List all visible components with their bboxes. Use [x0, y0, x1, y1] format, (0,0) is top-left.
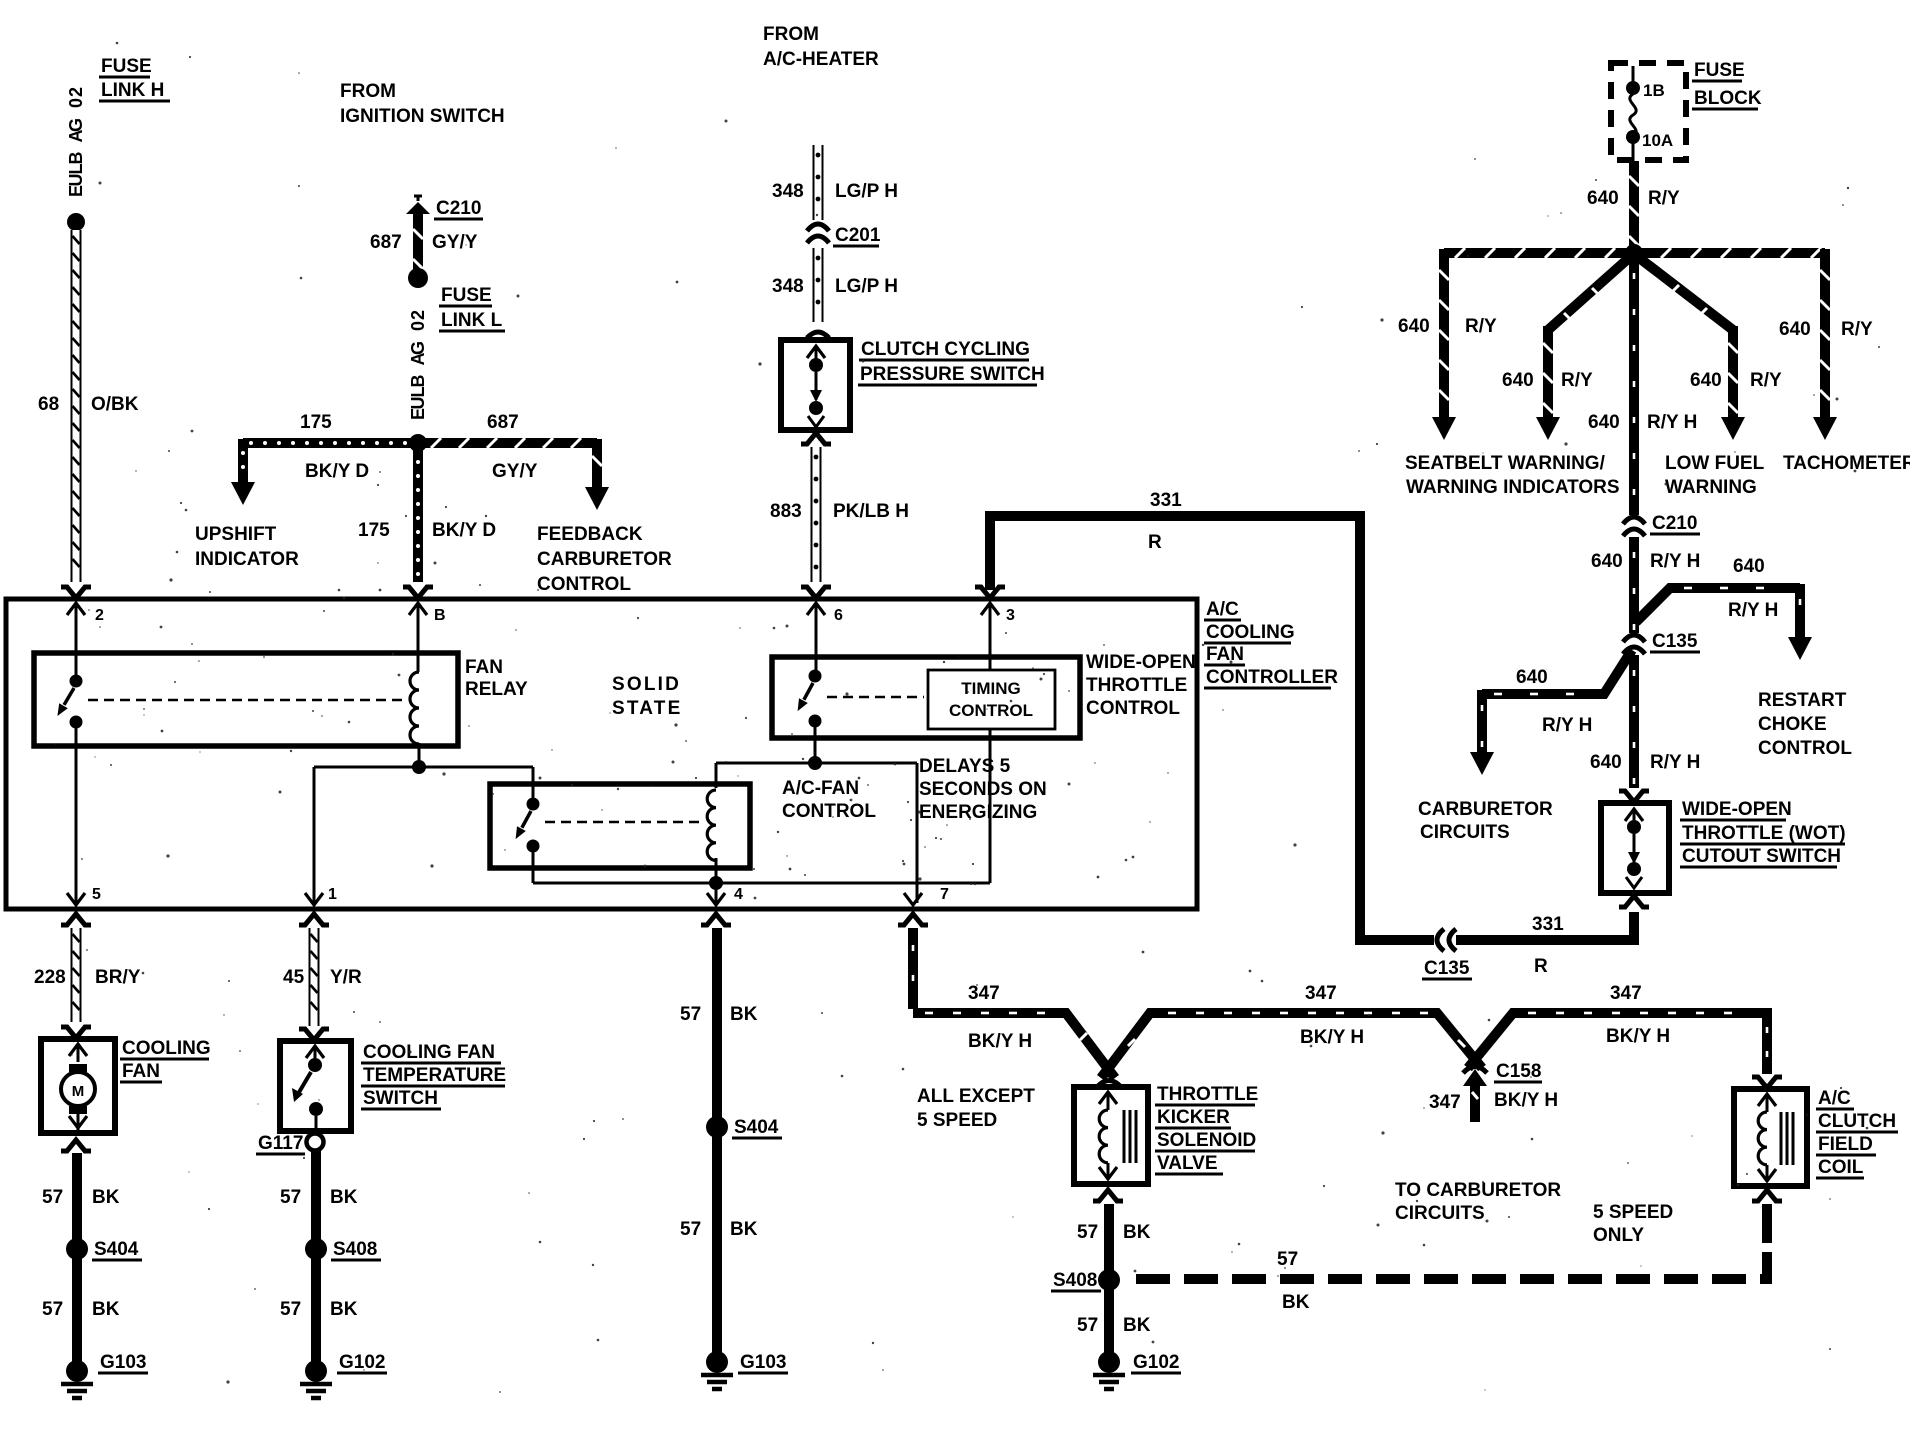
- svg-text:FUSE: FUSE: [441, 285, 492, 306]
- svg-text:347: 347: [968, 983, 1000, 1004]
- connector fork below pin 1: [299, 914, 329, 925]
- svg-text:45: 45: [283, 967, 305, 988]
- svg-text:57: 57: [1077, 1222, 1098, 1243]
- svg-text:BK: BK: [330, 1299, 358, 1320]
- svg-text:G102: G102: [1133, 1352, 1179, 1373]
- svg-text:THROTTLE: THROTTLE: [1157, 1084, 1258, 1105]
- svg-text:CONTROL: CONTROL: [1086, 698, 1180, 719]
- arrow to upshift indicator: [231, 482, 255, 505]
- splice S404: [66, 1238, 88, 1260]
- svg-text:CONTROLLER: CONTROLLER: [1206, 667, 1338, 688]
- svg-text:M: M: [72, 1083, 85, 1100]
- WOT control switch contacts: [809, 670, 822, 683]
- svg-text:R: R: [1148, 532, 1162, 553]
- connector fork at controller pin B: [403, 587, 433, 598]
- svg-text:CUTOUT SWITCH: CUTOUT SWITCH: [1682, 846, 1841, 867]
- wire junction to pin 1 and to A/C-fan switch: [314, 766, 533, 769]
- wire 640 R/Y H branch to carburetor circuits: [1482, 650, 1632, 694]
- svg-text:GY/Y: GY/Y: [492, 461, 538, 482]
- svg-text:FAN: FAN: [122, 1061, 160, 1082]
- svg-text:INDICATOR: INDICATOR: [195, 549, 299, 570]
- ground G102: [305, 1360, 327, 1382]
- wire 331 R from pin 3 to WOT cutout switch: [990, 516, 1434, 940]
- connector fork below cooling fan: [61, 1140, 91, 1151]
- svg-text:640: 640: [1590, 752, 1622, 773]
- svg-text:640: 640: [1398, 316, 1430, 337]
- svg-text:BK: BK: [330, 1187, 358, 1208]
- pin 2 arrow: [67, 603, 85, 615]
- pin 4 arrow: [707, 893, 725, 905]
- svg-text:A/C: A/C: [1818, 1088, 1851, 1109]
- svg-text:BK: BK: [730, 1004, 758, 1025]
- svg-text:KICKER: KICKER: [1157, 1107, 1230, 1128]
- wire 228 BR/Y from pin 5 to cooling fan: [71, 928, 82, 1022]
- svg-text:BK/Y H: BK/Y H: [1300, 1027, 1364, 1048]
- svg-text:BR/Y: BR/Y: [95, 967, 141, 988]
- wire 687 GY/Y from C210 to fuse link L dot: [413, 212, 423, 270]
- svg-text:LINK L: LINK L: [441, 310, 503, 331]
- ground G102 (throttle kicker branch): [1098, 1351, 1120, 1373]
- splice S408: [305, 1238, 327, 1260]
- wire A/C-fan coil to junction: [715, 858, 718, 883]
- wire 175 BK/Y D horizontal to upshift indicator: [243, 438, 418, 448]
- pin B arrow: [409, 603, 427, 615]
- svg-text:IGNITION SWITCH: IGNITION SWITCH: [340, 106, 505, 127]
- cooling fan motor M1 box: [41, 1039, 115, 1133]
- svg-text:347: 347: [1610, 983, 1642, 1004]
- svg-text:640: 640: [1588, 412, 1620, 433]
- svg-text:348: 348: [772, 276, 804, 297]
- svg-text:LOW FUEL: LOW FUEL: [1665, 453, 1765, 474]
- svg-text:57: 57: [680, 1219, 701, 1240]
- svg-text:CONTROL: CONTROL: [1758, 738, 1852, 759]
- svg-text:COOLING: COOLING: [1206, 622, 1295, 643]
- clutch cycling pressure switch SW1: [781, 340, 850, 430]
- svg-text:347: 347: [1305, 983, 1337, 1004]
- svg-text:CIRCUITS: CIRCUITS: [1395, 1203, 1485, 1224]
- wire 640 R/Y H branch to restart choke control: [1636, 588, 1800, 622]
- wire WOT switch to junction dot: [814, 727, 817, 763]
- wire 347 BK/Y H right segment to A/C clutch: [1468, 1013, 1767, 1074]
- wire 640 R/Y H from C135 to WOT cutout switch: [1629, 655, 1639, 788]
- pin 5 arrow: [67, 893, 85, 905]
- svg-text:CLUTCH CYCLING: CLUTCH CYCLING: [861, 339, 1030, 360]
- svg-text:68: 68: [38, 394, 59, 415]
- svg-text:L: L: [408, 387, 428, 398]
- wire pin 6 to WOT control switch: [815, 603, 818, 672]
- svg-text:0: 0: [408, 321, 428, 331]
- wire 348 LG/P H from C201 to clutch cycling pressure switch: [813, 248, 824, 322]
- ground G103 (pin 4 branch): [706, 1351, 728, 1373]
- wire 57 BK temperature switch to ground G102: [311, 1151, 321, 1366]
- svg-text:C210: C210: [1652, 513, 1697, 534]
- wire 640 R/Y diagonal branch to warning indicators: [1548, 257, 1630, 330]
- node dot fuse link L: [408, 268, 428, 288]
- svg-text:C201: C201: [835, 225, 881, 246]
- cooling fan temperature switch SW3 box: [280, 1041, 351, 1131]
- wire 57 BK pin 4 to ground G103: [712, 928, 722, 1358]
- svg-text:CARBURETOR: CARBURETOR: [1418, 799, 1553, 820]
- node dot fuse link H: [67, 213, 85, 231]
- svg-text:BK: BK: [1123, 1315, 1151, 1336]
- svg-text:A/C: A/C: [1206, 599, 1239, 620]
- svg-text:S408: S408: [1053, 1270, 1097, 1291]
- svg-text:E: E: [408, 408, 428, 420]
- connector fork above WOT cutout switch: [1619, 791, 1649, 802]
- connector arc at pressure switch top: [807, 332, 829, 338]
- svg-text:175: 175: [358, 520, 390, 541]
- svg-text:57: 57: [280, 1299, 301, 1320]
- svg-text:BK/Y H: BK/Y H: [968, 1031, 1032, 1052]
- svg-text:7: 7: [940, 886, 949, 903]
- svg-text:FIELD: FIELD: [1818, 1134, 1873, 1155]
- svg-text:U: U: [66, 174, 86, 187]
- svg-text:2: 2: [408, 310, 428, 320]
- svg-text:O/BK: O/BK: [91, 394, 139, 415]
- wire 883 PK/LB H from switch to controller pin 6: [811, 447, 822, 582]
- fan relay dashed link: [88, 699, 408, 702]
- svg-text:SOLENOID: SOLENOID: [1157, 1130, 1256, 1151]
- svg-text:L: L: [66, 164, 86, 175]
- inline connector C135 on 331 wire: [1437, 929, 1444, 951]
- ground terminal G117: [307, 1134, 324, 1151]
- svg-text:CARBURETOR: CARBURETOR: [537, 549, 672, 570]
- wire bus to timing control bottom: [716, 882, 990, 885]
- wide-open throttle cutout switch SW2: [1601, 803, 1669, 893]
- svg-text:A/C-HEATER: A/C-HEATER: [763, 49, 879, 70]
- connector fork above A/C clutch field coil: [1752, 1077, 1782, 1088]
- junction dot 175/687 split: [409, 434, 427, 452]
- svg-text:U: U: [408, 397, 428, 410]
- svg-text:ENERGIZING: ENERGIZING: [919, 802, 1037, 823]
- svg-text:C158: C158: [1496, 1061, 1541, 1082]
- svg-text:3: 3: [1006, 607, 1015, 624]
- svg-text:C135: C135: [1424, 958, 1470, 979]
- svg-text:0: 0: [66, 98, 86, 108]
- svg-text:FUSE: FUSE: [1694, 60, 1745, 81]
- svg-text:GY/Y: GY/Y: [432, 232, 478, 253]
- wire 640 R/Y H main down to C210: [1629, 258, 1639, 515]
- svg-text:R/Y H: R/Y H: [1650, 551, 1700, 572]
- svg-text:640: 640: [1733, 556, 1765, 577]
- svg-text:FROM: FROM: [763, 24, 819, 45]
- svg-text:LG/P H: LG/P H: [835, 276, 898, 297]
- svg-text:R/Y: R/Y: [1750, 370, 1782, 391]
- connector C210 arrow to ignition switch: [417, 196, 420, 201]
- svg-text:640: 640: [1502, 370, 1534, 391]
- svg-text:G117: G117: [258, 1133, 303, 1154]
- svg-text:SECONDS ON: SECONDS ON: [919, 779, 1047, 800]
- pin 1 arrow: [305, 893, 323, 905]
- wire 57 BK dashed (5 speed only): [1122, 1252, 1767, 1279]
- svg-text:PRESSURE SWITCH: PRESSURE SWITCH: [860, 364, 1045, 385]
- svg-text:TEMPERATURE: TEMPERATURE: [363, 1065, 506, 1086]
- connector fork above cooling fan: [61, 1027, 91, 1038]
- junction dot below fan relay coil: [412, 760, 426, 774]
- svg-text:R: R: [1534, 956, 1548, 977]
- wire 640 R/Y diagonal branch to low fuel warning: [1638, 257, 1733, 330]
- wire A/C-fan switch to bus: [532, 852, 535, 883]
- svg-text:57: 57: [42, 1187, 63, 1208]
- svg-text:A/C-FAN: A/C-FAN: [782, 778, 859, 799]
- svg-text:BK/Y H: BK/Y H: [1606, 1026, 1670, 1047]
- svg-text:THROTTLE (WOT): THROTTLE (WOT): [1682, 823, 1846, 844]
- svg-text:R/Y: R/Y: [1465, 316, 1497, 337]
- svg-text:5 SPEED: 5 SPEED: [917, 1110, 997, 1131]
- svg-text:COOLING FAN: COOLING FAN: [363, 1042, 495, 1063]
- wire pin 2 to fan relay switch: [75, 603, 78, 676]
- svg-text:RESTART: RESTART: [1758, 690, 1847, 711]
- connector fork below pin 4: [701, 914, 731, 925]
- connector fork below throttle kicker solenoid: [1093, 1190, 1123, 1201]
- wire 640 R/Y branch to tachometer: [1634, 248, 1825, 258]
- svg-text:640: 640: [1591, 551, 1623, 572]
- pin 3 arrow: [981, 603, 999, 615]
- svg-text:WARNING INDICATORS: WARNING INDICATORS: [1406, 477, 1620, 498]
- svg-text:57: 57: [42, 1299, 63, 1320]
- svg-text:640: 640: [1690, 370, 1722, 391]
- svg-text:57: 57: [680, 1004, 701, 1025]
- svg-text:R/Y H: R/Y H: [1650, 752, 1700, 773]
- wire 68 O/BK from fuse link H to controller pin 2: [71, 230, 82, 582]
- svg-text:FUSE: FUSE: [101, 56, 152, 77]
- svg-text:CIRCUITS: CIRCUITS: [1420, 822, 1510, 843]
- svg-text:R/Y: R/Y: [1561, 370, 1593, 391]
- wire 347 BK/Y H from pin 7: [908, 928, 918, 1009]
- A/C-fan relay dashed link: [545, 821, 700, 824]
- throttle kicker solenoid valve L3 box: [1074, 1087, 1148, 1184]
- fan relay coil L1: [410, 672, 419, 744]
- svg-text:LG/P H: LG/P H: [835, 181, 898, 202]
- svg-text:FEEDBACK: FEEDBACK: [537, 524, 643, 545]
- svg-text:THROTTLE: THROTTLE: [1086, 675, 1187, 696]
- WOT control dashed link: [827, 696, 924, 699]
- svg-text:ONLY: ONLY: [1593, 1225, 1644, 1246]
- svg-text:S404: S404: [734, 1117, 779, 1138]
- svg-text:CONTROL: CONTROL: [537, 574, 631, 595]
- connector C201: [807, 224, 829, 231]
- svg-text:BLOCK: BLOCK: [1694, 88, 1762, 109]
- connector fork at controller pin 6: [801, 587, 831, 598]
- inline connector C210 (right): [1623, 517, 1645, 524]
- svg-text:G102: G102: [339, 1352, 385, 1373]
- svg-text:R/Y: R/Y: [1841, 319, 1873, 340]
- connector fork below pressure switch: [801, 433, 831, 444]
- svg-text:Y/R: Y/R: [330, 967, 362, 988]
- wire 640 R/Y H from C210 to C135: [1629, 537, 1639, 633]
- svg-text:B: B: [408, 375, 428, 388]
- svg-text:B: B: [66, 152, 86, 165]
- A/C-fan control relay K2 box: [490, 784, 750, 868]
- svg-text:331: 331: [1532, 914, 1564, 935]
- svg-text:10A: 10A: [1642, 131, 1673, 150]
- svg-text:347: 347: [1429, 1092, 1461, 1113]
- svg-text:BK: BK: [1282, 1292, 1310, 1313]
- fan relay K1 box: [34, 653, 458, 746]
- svg-text:348: 348: [772, 181, 804, 202]
- wire 57 BK below A/C clutch (5 speed only): [1762, 1204, 1772, 1243]
- svg-text:CONTROL: CONTROL: [949, 701, 1033, 720]
- wire 348 LG/P H from A/C-heater to C201: [813, 145, 824, 220]
- svg-text:5: 5: [92, 886, 101, 903]
- svg-text:R/Y: R/Y: [1648, 188, 1680, 209]
- svg-text:A: A: [408, 353, 428, 366]
- svg-text:G103: G103: [740, 1352, 786, 1373]
- svg-text:LINK H: LINK H: [101, 80, 164, 101]
- svg-text:640: 640: [1779, 319, 1811, 340]
- junction dot below A/C-fan relay: [709, 876, 723, 890]
- ground G103: [66, 1360, 88, 1382]
- wire 640 R/Y from fuse block to junction: [1629, 161, 1639, 247]
- connector fork at controller pin 3: [975, 587, 1005, 598]
- svg-text:WIDE-OPEN: WIDE-OPEN: [1682, 799, 1792, 820]
- connector fork below A/C clutch field coil: [1752, 1190, 1782, 1201]
- wire fan relay switch to pin 5: [75, 728, 78, 903]
- svg-text:COOLING: COOLING: [122, 1038, 211, 1059]
- svg-text:G103: G103: [100, 1352, 146, 1373]
- svg-text:1B: 1B: [1643, 81, 1665, 100]
- svg-text:57: 57: [1077, 1315, 1098, 1336]
- wire 640 R/Y branch to seatbelt warning: [1444, 248, 1634, 258]
- junction dot below WOT control: [808, 756, 822, 770]
- A/C clutch field coil L4 box: [1734, 1089, 1807, 1186]
- svg-text:C135: C135: [1652, 631, 1698, 652]
- svg-text:SOLID: SOLID: [612, 674, 681, 695]
- svg-text:PK/LB H: PK/LB H: [833, 501, 909, 522]
- svg-text:ALL EXCEPT: ALL EXCEPT: [917, 1086, 1035, 1107]
- svg-text:S404: S404: [94, 1239, 139, 1260]
- connector fork below pin 5: [61, 914, 91, 925]
- wide-open throttle control box: [772, 657, 1080, 738]
- svg-text:175: 175: [300, 412, 332, 433]
- svg-text:BK/Y D: BK/Y D: [305, 461, 369, 482]
- wire fan relay coil to junction: [418, 743, 421, 767]
- svg-text:640: 640: [1516, 667, 1548, 688]
- arrow to feedback carburetor control: [585, 487, 609, 510]
- wire 57 BK throttle kicker to ground G102: [1104, 1204, 1114, 1358]
- svg-text:BK: BK: [92, 1187, 120, 1208]
- svg-text:DELAYS 5: DELAYS 5: [919, 756, 1011, 777]
- svg-text:640: 640: [1587, 188, 1619, 209]
- svg-text:CLUTCH: CLUTCH: [1818, 1111, 1896, 1132]
- svg-text:UPSHIFT: UPSHIFT: [195, 524, 277, 545]
- svg-text:883: 883: [770, 501, 802, 522]
- svg-text:BK: BK: [92, 1299, 120, 1320]
- wire 347 BK/Y H middle segment: [1101, 1013, 1482, 1078]
- wire 57 BK cooling fan to ground G103: [72, 1153, 82, 1366]
- junction dot 640 five-way: [1625, 244, 1643, 262]
- svg-text:TACHOMETER: TACHOMETER: [1783, 453, 1910, 474]
- A/C-fan relay coil L2: [707, 790, 716, 860]
- svg-text:6: 6: [834, 607, 843, 624]
- wire junction to A/C-fan coil and pin 7: [716, 762, 917, 765]
- svg-text:FROM: FROM: [340, 81, 396, 102]
- svg-text:CONTROL: CONTROL: [782, 801, 876, 822]
- svg-text:VALVE: VALVE: [1157, 1153, 1218, 1174]
- svg-text:STATE: STATE: [612, 698, 682, 719]
- wire pin B to fan relay coil: [417, 603, 420, 672]
- inline connector C158: [1463, 1067, 1487, 1074]
- wire 347 BK/Y H stub below C158: [1470, 1086, 1480, 1122]
- svg-text:A: A: [66, 130, 86, 143]
- svg-text:687: 687: [370, 232, 402, 253]
- junction arch above throttle kicker solenoid: [1097, 1081, 1121, 1088]
- svg-text:BK/Y H: BK/Y H: [1494, 1090, 1558, 1111]
- svg-text:687: 687: [487, 412, 519, 433]
- svg-text:5 SPEED: 5 SPEED: [1593, 1202, 1673, 1223]
- svg-text:COIL: COIL: [1818, 1157, 1864, 1178]
- svg-text:C210: C210: [436, 198, 481, 219]
- wire junction to pin 4: [715, 883, 718, 903]
- connector fork below pin 7: [898, 914, 928, 925]
- timing control box: [928, 670, 1055, 729]
- svg-text:R/Y H: R/Y H: [1728, 600, 1778, 621]
- A/C-fan relay switch contacts: [527, 798, 540, 811]
- svg-text:2: 2: [66, 87, 86, 97]
- svg-text:SWITCH: SWITCH: [363, 1088, 438, 1109]
- connector fork below WOT cutout switch: [1619, 896, 1649, 907]
- svg-text:228: 228: [34, 967, 66, 988]
- svg-text:BK/Y D: BK/Y D: [432, 520, 496, 541]
- fan relay switch contacts: [70, 675, 83, 688]
- svg-text:WARNING: WARNING: [1665, 477, 1757, 498]
- wire 175 BK/Y D from junction to controller pin B: [413, 448, 423, 582]
- svg-text:BK: BK: [1123, 1222, 1151, 1243]
- svg-text:331: 331: [1150, 490, 1182, 511]
- wire 687 GY/Y horizontal to feedback carburetor control: [422, 438, 597, 448]
- fuse 10A inside fuse block: [1632, 66, 1635, 82]
- inline connector C135 (right): [1623, 635, 1645, 642]
- svg-text:R/Y H: R/Y H: [1647, 412, 1697, 433]
- wire 45 Y/R from pin 1 to temperature switch: [309, 928, 320, 1026]
- svg-text:WIDE-OPEN: WIDE-OPEN: [1086, 652, 1196, 673]
- svg-text:RELAY: RELAY: [465, 679, 528, 700]
- connector fork above temperature switch: [299, 1029, 329, 1040]
- svg-text:FAN: FAN: [1206, 644, 1244, 665]
- svg-text:S408: S408: [333, 1239, 377, 1260]
- splice S408 (throttle kicker branch): [1098, 1269, 1120, 1291]
- pin 7 arrow: [904, 893, 922, 905]
- svg-text:57: 57: [1277, 1249, 1298, 1270]
- svg-text:57: 57: [280, 1187, 301, 1208]
- svg-text:4: 4: [734, 886, 743, 903]
- svg-text:2: 2: [95, 607, 104, 624]
- svg-text:B: B: [434, 607, 446, 624]
- wire pin 3 to timing control: [989, 603, 992, 670]
- svg-text:BK: BK: [730, 1219, 758, 1240]
- A/C cooling fan controller box U1: [6, 599, 1197, 909]
- svg-text:TO CARBURETOR: TO CARBURETOR: [1395, 1180, 1561, 1201]
- svg-text:R/Y H: R/Y H: [1542, 715, 1592, 736]
- svg-text:FAN: FAN: [465, 657, 503, 678]
- connector fork at controller pin 2: [61, 587, 91, 598]
- splice S404 (pin 4 branch): [706, 1116, 728, 1138]
- svg-text:SEATBELT WARNING/: SEATBELT WARNING/: [1405, 453, 1606, 474]
- pin 6 arrow: [807, 603, 825, 615]
- svg-text:1: 1: [328, 886, 337, 903]
- svg-text:TIMING: TIMING: [961, 679, 1021, 698]
- fuse block dashed box: [1611, 63, 1686, 160]
- svg-text:E: E: [66, 185, 86, 197]
- svg-text:CHOKE: CHOKE: [1758, 714, 1827, 735]
